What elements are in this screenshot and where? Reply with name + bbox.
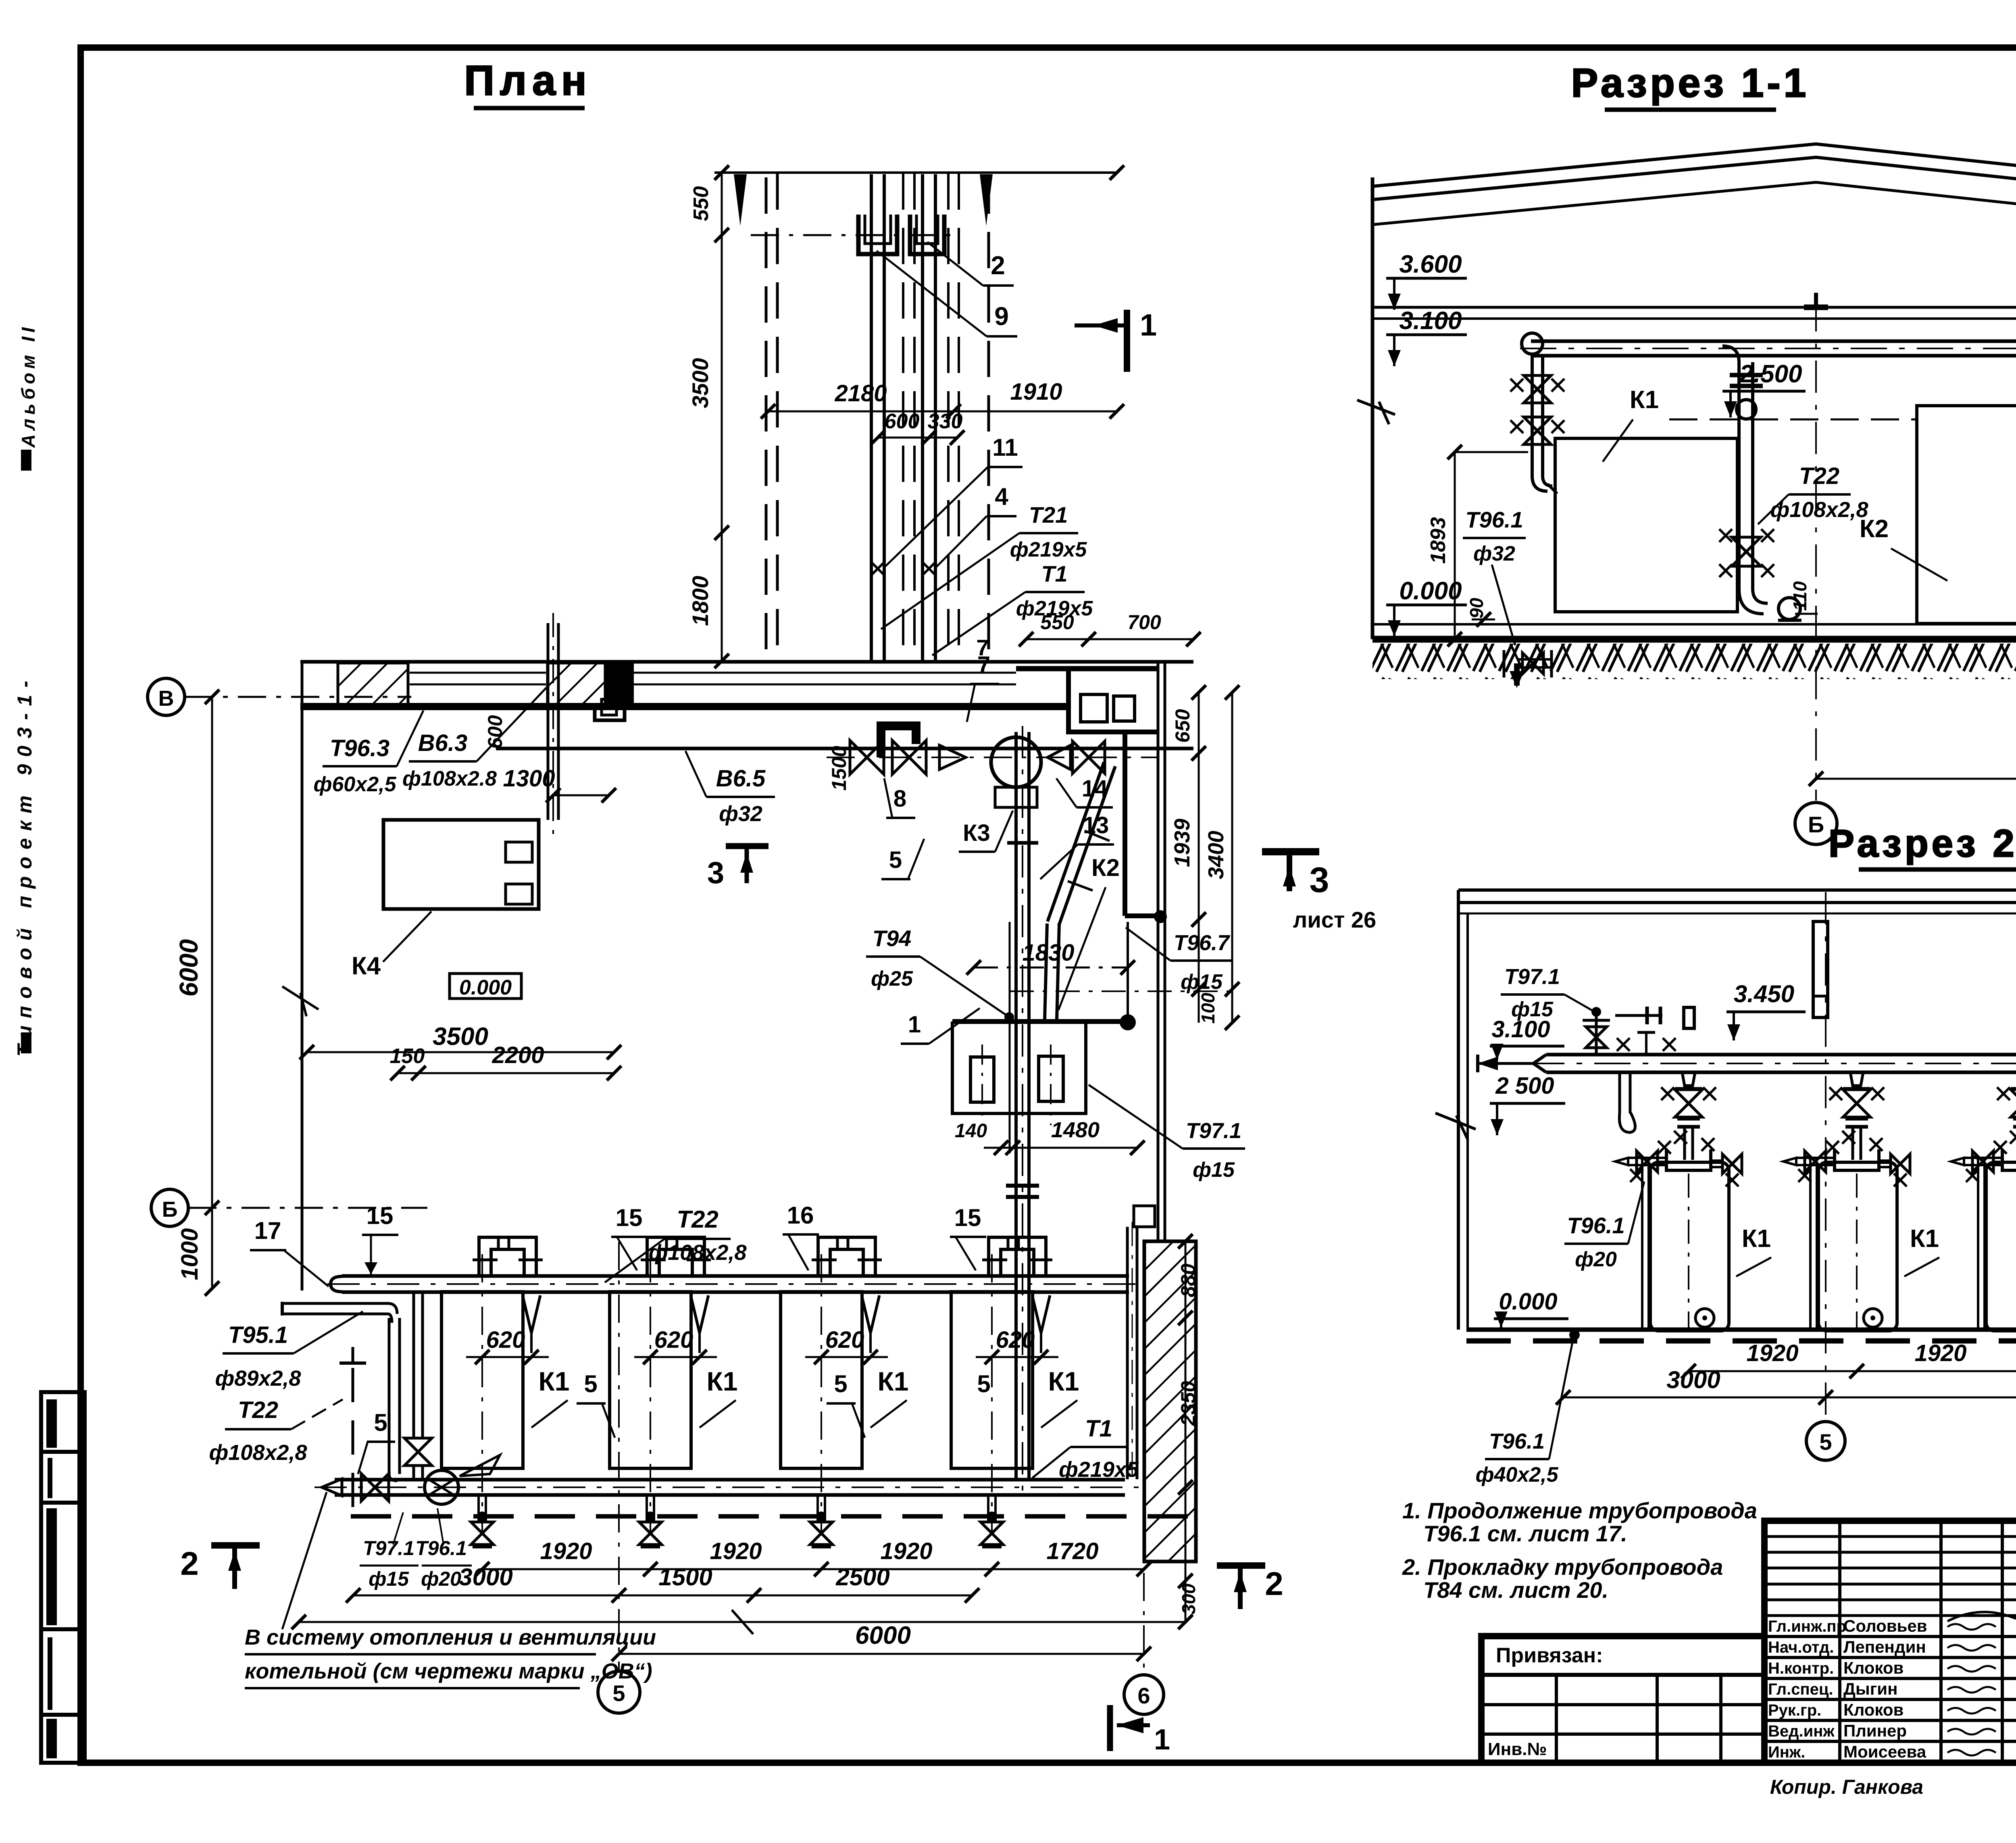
left vertical pipe to lower manifold	[388, 1318, 391, 1474]
s1 break mark left	[1357, 400, 1395, 415]
axis circle 5 bottom	[598, 1671, 640, 1713]
svg-text:1: 1	[908, 1011, 921, 1038]
s1 ground hatch band	[1372, 644, 2016, 679]
support triangle boiler 3	[862, 1295, 871, 1333]
svg-text:ф60х2,5: ф60х2,5	[313, 773, 396, 796]
svg-text:16: 16	[787, 1202, 814, 1229]
s2 left fitting cluster	[1591, 1007, 1601, 1017]
svg-text:110: 110	[1789, 581, 1810, 611]
svg-text:ф89х2,8: ф89х2,8	[215, 1366, 301, 1391]
svg-text:550: 550	[1040, 611, 1074, 634]
page edge fold marks	[21, 450, 31, 471]
s2 side valve right boiler 2	[1879, 1166, 1891, 1168]
svg-text:1500: 1500	[828, 746, 850, 790]
svg-text:Т84 см. лист 20.: Т84 см. лист 20.	[1423, 1577, 1608, 1603]
corridor dim 600 330	[878, 437, 957, 439]
svg-text:ф20: ф20	[1575, 1248, 1617, 1271]
compensator loop boiler 3	[818, 1237, 875, 1276]
svg-text:К1: К1	[539, 1366, 570, 1396]
svg-text:ф108х2,8: ф108х2,8	[649, 1240, 747, 1265]
inner corridor pipe line B6.5	[496, 747, 1193, 751]
svg-text:Разрез 2-2: Разрез 2-2	[1829, 822, 2016, 865]
svg-text:6000: 6000	[174, 939, 203, 997]
s2 left wall	[1457, 890, 1460, 1330]
corridor pipe T1 double	[921, 174, 924, 661]
left elbow pipe T95.1 horizontal	[282, 1313, 388, 1316]
pipe T96.7 riser line	[1127, 922, 1129, 1022]
right dim column 650	[1198, 692, 1200, 1023]
s1 floor thin line	[1372, 623, 2016, 625]
section flag 3 mid plan	[726, 843, 768, 849]
svg-text:К4: К4	[352, 952, 381, 980]
boiler K1 #1 plan	[442, 1292, 523, 1468]
assembly valve 1	[850, 740, 884, 774]
title block left part outline	[1481, 1636, 1764, 1763]
axis circle V	[148, 678, 185, 715]
lower manifold centerline	[314, 1486, 1141, 1488]
svg-text:Т97.1: Т97.1	[363, 1537, 414, 1559]
dimension 150 2200 row	[398, 1072, 614, 1074]
svg-text:5: 5	[834, 1370, 847, 1397]
s2 valve assembly boiler 2	[1850, 1072, 1863, 1086]
corridor dashed pipe 2	[776, 173, 779, 661]
bowtie on lower manifold	[361, 1474, 389, 1501]
s1 riser valve 2	[1524, 417, 1551, 444]
junction dot	[1154, 910, 1167, 923]
svg-text:Т97.1: Т97.1	[1186, 1119, 1241, 1143]
flange marks loop 2	[641, 1259, 666, 1261]
dimension row 1920x3 1720 plan	[482, 1568, 1144, 1570]
svg-text:Т95.1: Т95.1	[228, 1322, 288, 1348]
dimension 3500 row	[307, 1051, 614, 1053]
svg-text:ф15: ф15	[1193, 1158, 1235, 1182]
svg-text:Клоков: Клоков	[1843, 1658, 1904, 1677]
svg-text:1: 1	[1154, 1724, 1170, 1756]
roof edge triangle right	[980, 174, 993, 226]
s2 boiler pump circle 2	[1864, 1309, 1882, 1327]
svg-text:Т96.7: Т96.7	[1174, 931, 1231, 955]
diag pipe joint marks	[1068, 881, 1093, 890]
s2 manifold bracket boiler 3	[2002, 1149, 2016, 1170]
svg-text:0.000: 0.000	[459, 976, 512, 999]
s2 side pipe boiler 2	[1796, 1164, 1835, 1166]
svg-text:Т97.1: Т97.1	[1504, 965, 1560, 989]
svg-text:Разрез 1-1: Разрез 1-1	[1571, 60, 1810, 106]
extension line right	[1010, 990, 1232, 992]
svg-text:Т22: Т22	[1799, 463, 1839, 489]
svg-text:14: 14	[1082, 776, 1108, 802]
dimension 6000 plan	[619, 1653, 1144, 1655]
svg-text:600: 600	[885, 410, 920, 433]
svg-text:0.000: 0.000	[1499, 1288, 1557, 1315]
s2 manifold bracket boiler 1	[1666, 1149, 1711, 1170]
svg-text:100: 100	[1198, 992, 1218, 1024]
svg-text:1000: 1000	[177, 1228, 203, 1280]
svg-text:Привязан:: Привязан:	[1496, 1644, 1603, 1667]
left vertical dimension 6000	[211, 697, 213, 1288]
vestibule wall step	[1068, 669, 1158, 732]
svg-text:650: 650	[1171, 709, 1194, 743]
svg-text:3: 3	[707, 856, 724, 890]
support triangle boiler 1	[523, 1295, 531, 1333]
riser flange mark 2	[1007, 841, 1038, 845]
svg-text:Т1: Т1	[1085, 1416, 1112, 1442]
svg-text:Т96.1: Т96.1	[1567, 1213, 1624, 1238]
svg-text:880: 880	[1177, 1263, 1200, 1297]
compensator loop boiler 4	[989, 1237, 1046, 1276]
vertical pipe T1 along right wall	[1126, 1227, 1129, 1479]
s1 left riser air vent circle	[1522, 333, 1543, 354]
vestibule equipment box 1	[1081, 694, 1107, 722]
svg-text:Т94: Т94	[873, 926, 912, 951]
K2 top heavy line	[952, 1019, 1128, 1024]
svg-text:2: 2	[991, 251, 1005, 280]
flange marks loop 4	[982, 1259, 1007, 1261]
assembly valve 2	[892, 740, 926, 774]
vestibule equipment box 2	[1114, 696, 1135, 721]
svg-text:3500: 3500	[687, 358, 713, 409]
svg-text:1920: 1920	[1746, 1340, 1798, 1366]
plan top wall outer line	[300, 660, 1193, 664]
svg-text:13: 13	[1083, 812, 1109, 838]
arrow mark on manifold	[460, 1455, 500, 1476]
corridor pipe T21 double	[870, 174, 873, 661]
dashed riser T22 left	[352, 1368, 354, 1515]
svg-text:5: 5	[612, 1680, 625, 1706]
riser flange pair	[1006, 1184, 1039, 1188]
dimension 1830	[974, 967, 1128, 969]
signature table thin rows	[1764, 1535, 2016, 1538]
s2 boiler K1 #1	[1650, 1162, 1729, 1331]
boiler K1 #3 plan	[781, 1292, 862, 1468]
stamp column rotated text marks	[46, 1399, 57, 1448]
svg-text:ф108х2,8: ф108х2,8	[1770, 498, 1868, 522]
svg-text:3000: 3000	[459, 1564, 512, 1591]
svg-text:7: 7	[976, 635, 989, 660]
svg-text:140: 140	[955, 1120, 987, 1142]
svg-text:В6.5: В6.5	[716, 765, 766, 792]
signature table verticals	[1838, 1521, 1841, 1763]
diagonal pipe from assembly	[1048, 762, 1104, 921]
s1 roof top chord	[1372, 144, 2016, 224]
corridor dashed pair mid	[902, 173, 904, 661]
svg-text:3000: 3000	[1666, 1366, 1720, 1393]
s2 break mark left	[1435, 1113, 1476, 1129]
svg-text:15: 15	[616, 1204, 643, 1231]
svg-text:Н.контр.: Н.контр.	[1768, 1660, 1834, 1677]
axis V dash-dot line	[185, 696, 411, 698]
svg-text:В систему отопления и вентиляц: В систему отопления и вентиляции	[245, 1625, 656, 1649]
s1 roof lower line	[1372, 182, 2016, 262]
inner wall right vertical	[1123, 732, 1127, 916]
svg-text:К1: К1	[1742, 1225, 1771, 1253]
assembly hoop pipe	[881, 726, 916, 757]
svg-text:6: 6	[1137, 1683, 1150, 1708]
svg-text:2500: 2500	[835, 1564, 889, 1591]
svg-text:620: 620	[654, 1327, 694, 1353]
svg-text:Дыгин: Дыгин	[1843, 1679, 1897, 1698]
s2 manifold bracket boiler 2	[1835, 1149, 1879, 1170]
s1 T22 flange	[1730, 373, 1763, 377]
svg-text:4: 4	[995, 483, 1008, 510]
s1 axis circle B	[1795, 803, 1837, 844]
dimension row 3000 1500 2500	[353, 1595, 972, 1597]
svg-text:К1: К1	[1630, 386, 1659, 414]
svg-text:ф20: ф20	[421, 1568, 461, 1590]
svg-text:Т22: Т22	[238, 1397, 278, 1423]
s2 boiler pump circle 1	[1695, 1309, 1714, 1327]
svg-text:1800: 1800	[687, 576, 713, 626]
s1 2.500 level dash line	[1669, 419, 1915, 421]
K4 inner box 1	[506, 842, 532, 862]
s2 dim row 1920	[1689, 1370, 2016, 1372]
section flag T3 right	[1262, 848, 1319, 855]
K4 inner box 2	[506, 884, 532, 904]
svg-text:3400: 3400	[1204, 831, 1228, 879]
title block outline right part	[1764, 1521, 2016, 1763]
svg-text:3.450: 3.450	[1734, 980, 1794, 1007]
boiler 4 drop valve below manifold	[987, 1512, 997, 1521]
svg-text:Т1: Т1	[1041, 561, 1067, 586]
roof edge triangle left	[734, 174, 747, 226]
boiler 1 drop valve below manifold	[477, 1512, 487, 1521]
branch pipe from upper manifold	[412, 1292, 415, 1438]
svg-text:котельной (см чертежи марки „О: котельной (см чертежи марки „ОВ“)	[245, 1659, 652, 1683]
svg-text:К1: К1	[878, 1366, 909, 1396]
section flag T2 bottom right	[1217, 1562, 1265, 1569]
svg-text:ф32: ф32	[1473, 542, 1515, 565]
burner box 2	[1039, 1056, 1063, 1101]
s2 axis circle 5	[1806, 1422, 1845, 1460]
svg-text:15: 15	[367, 1202, 394, 1229]
s1 T22 circle fitting	[1737, 400, 1756, 419]
dimension 1300	[553, 794, 609, 796]
svg-text:2180: 2180	[834, 380, 887, 407]
assembly valve 3	[1073, 741, 1105, 773]
svg-text:Т96.1: Т96.1	[1489, 1429, 1545, 1453]
svg-text:620: 620	[486, 1327, 525, 1353]
s1 dim 1893	[1454, 452, 1456, 639]
tank K4	[383, 820, 539, 909]
svg-text:Инв.№: Инв.№	[1488, 1739, 1547, 1759]
svg-text:Плинер: Плинер	[1843, 1721, 1907, 1740]
svg-text:ф15: ф15	[1181, 970, 1223, 994]
svg-text:Т96.1: Т96.1	[1465, 507, 1523, 532]
svg-text:1920: 1920	[1914, 1340, 1966, 1366]
s2 valve assembly boiler 1	[1682, 1072, 1695, 1086]
svg-text:1920: 1920	[540, 1538, 592, 1564]
svg-text:5: 5	[889, 847, 902, 873]
leader to note	[282, 1492, 327, 1629]
right dim 3400	[1231, 692, 1233, 1023]
svg-text:Альбом II: Альбом II	[18, 323, 39, 448]
wall window thin lines 1	[410, 672, 546, 674]
svg-text:Типовой проект 903-1-: Типовой проект 903-1-	[13, 673, 36, 1057]
s2 boiler left pipe 3	[1977, 1161, 1979, 1330]
svg-text:Т96.1: Т96.1	[415, 1537, 467, 1559]
svg-text:1910: 1910	[1010, 379, 1062, 405]
svg-text:620: 620	[825, 1327, 864, 1353]
privyazan box line	[1481, 1673, 1764, 1677]
riser pipe into K4	[547, 623, 550, 820]
svg-text:Инж.: Инж.	[1768, 1743, 1805, 1761]
right dim 2350	[1185, 1318, 1187, 1487]
svg-text:Б: Б	[162, 1197, 178, 1222]
svg-text:3.600: 3.600	[1399, 250, 1462, 278]
corridor top dim line	[714, 171, 1117, 174]
svg-text:0.000: 0.000	[1399, 577, 1462, 605]
svg-text:150: 150	[390, 1045, 425, 1068]
compensator loop boiler 1	[479, 1237, 536, 1276]
corridor dash-dot through clamps	[751, 234, 953, 236]
svg-text:К2: К2	[1091, 854, 1120, 881]
s1 heater K2 box	[1917, 406, 2016, 623]
leader lines from drop labels	[393, 1512, 403, 1545]
s2 floor dashed heavy	[1466, 1338, 2016, 1344]
assembly flow arrow right	[1048, 745, 1070, 769]
wall window thin lines 2	[633, 672, 1016, 674]
s1 ceiling line 3.600	[1372, 306, 2016, 309]
svg-text:3.100: 3.100	[1491, 1016, 1550, 1042]
svg-text:1300: 1300	[503, 765, 555, 792]
section flag 1 top	[1124, 310, 1130, 372]
axis line 5 bottom	[618, 1242, 620, 1671]
s2 side valve right boiler 1	[1711, 1166, 1723, 1168]
svg-text:1480: 1480	[1051, 1118, 1100, 1142]
svg-text:ф25: ф25	[871, 967, 913, 990]
svg-text:1920: 1920	[710, 1538, 762, 1564]
plan top wall inner heavy line	[300, 703, 1070, 710]
s1 dim 6000	[1816, 778, 2016, 780]
left page-edge stamp column	[41, 1392, 85, 1763]
axis B dash-dot line	[188, 1207, 427, 1209]
s2 boiler left pipe 2	[1809, 1161, 1812, 1330]
boiler 2 drop valve below manifold	[646, 1512, 655, 1521]
axis line 6 bottom	[1143, 1573, 1145, 1675]
svg-text:5: 5	[584, 1370, 597, 1397]
svg-text:Рук.гр.: Рук.гр.	[1768, 1701, 1821, 1719]
axis circle 6 bottom	[1124, 1675, 1164, 1714]
svg-text:3: 3	[1310, 860, 1329, 900]
svg-text:ф15: ф15	[369, 1568, 409, 1590]
left pipe T95.1 elbow down	[388, 1303, 397, 1314]
s1 riser T22 middle	[1737, 362, 1741, 589]
corridor dashed pipe right edge	[987, 177, 990, 661]
s1 T22 valve	[1732, 537, 1761, 566]
svg-text:5: 5	[977, 1370, 990, 1397]
assembly flow arrow left	[939, 745, 966, 769]
s2 dim row 3000 6000	[1563, 1397, 2016, 1399]
s1 floor heavy line	[1372, 636, 2016, 643]
support triangle boiler 2	[691, 1295, 700, 1333]
svg-text:300: 300	[1178, 1583, 1199, 1614]
burner box 1	[971, 1057, 994, 1102]
head signature arrow	[1947, 1598, 2016, 1622]
svg-text:17: 17	[254, 1217, 281, 1244]
svg-text:К1: К1	[1910, 1225, 1939, 1253]
s1 riser valve 1	[1524, 375, 1551, 403]
boiler K1 #2 plan	[610, 1292, 691, 1468]
svg-text:2. Прокладку трубопровода: 2. Прокладку трубопровода	[1402, 1554, 1723, 1580]
svg-text:Вед.инж: Вед.инж	[1768, 1722, 1835, 1740]
svg-text:700: 700	[1127, 611, 1161, 634]
s2 U drop seal	[1618, 1072, 1621, 1113]
corridor dim 2180 1910	[768, 411, 1117, 413]
s2 hanging column 1	[1813, 921, 1828, 1017]
axis circle B left	[151, 1189, 188, 1226]
section flag 1 bottom right	[1107, 1705, 1113, 1751]
svg-text:1720: 1720	[1046, 1538, 1098, 1564]
svg-text:550: 550	[689, 186, 713, 221]
flange marks loop 3	[812, 1259, 837, 1261]
svg-text:ф108х2.8: ф108х2.8	[402, 767, 497, 790]
svg-text:2 500: 2 500	[1495, 1073, 1554, 1099]
svg-text:В6.3: В6.3	[418, 730, 468, 756]
right dim 300	[1185, 1487, 1187, 1622]
svg-text:1: 1	[1140, 308, 1157, 342]
s1 axis B vertical dashdot	[1815, 299, 1817, 801]
svg-text:ф32: ф32	[719, 802, 762, 826]
s1 riser T22 top elbow	[1722, 346, 1739, 362]
svg-text:1939: 1939	[1170, 819, 1194, 867]
svg-text:Соловьев: Соловьев	[1843, 1616, 1927, 1635]
svg-text:600: 600	[484, 715, 506, 749]
wall break mark	[282, 986, 319, 1009]
svg-text:9: 9	[994, 302, 1009, 331]
svg-text:Т22: Т22	[677, 1206, 718, 1233]
wall hatched block 1	[338, 663, 408, 705]
s1 support mark on ceiling	[1804, 304, 1828, 310]
svg-text:Лепендин: Лепендин	[1843, 1637, 1926, 1656]
svg-text:2200: 2200	[492, 1042, 544, 1068]
left part inner grid	[1481, 1703, 1764, 1706]
support triangle boiler 4	[1032, 1295, 1041, 1333]
s2 floor line	[1466, 1328, 2016, 1332]
svg-text:Т96.1 см. лист 17.: Т96.1 см. лист 17.	[1423, 1521, 1627, 1546]
s1 floor drain assembly	[1517, 666, 1550, 669]
boiler K1 #4 plan	[951, 1292, 1033, 1468]
svg-text:Моисеева: Моисеева	[1843, 1742, 1926, 1761]
s1 boiler K1 box	[1555, 438, 1737, 612]
level box 0.000	[450, 974, 521, 999]
s2 pipe left taper	[1533, 1055, 1546, 1072]
plan left wall line	[301, 661, 304, 1291]
heater K2 plan	[952, 1022, 1086, 1113]
svg-text:5: 5	[1819, 1429, 1832, 1455]
svg-text:11: 11	[992, 434, 1018, 461]
svg-text:6000: 6000	[855, 1622, 911, 1649]
small box on right wall	[1134, 1206, 1155, 1227]
corridor dashed pair right	[947, 173, 950, 661]
vestibule wall top right	[1016, 666, 1159, 671]
flange marks loop 1	[473, 1259, 498, 1261]
boiler 3 drop valve below manifold	[816, 1512, 826, 1521]
wall hatched block 2	[548, 663, 605, 705]
s1 left riser pipe	[1531, 356, 1534, 476]
svg-text:8: 8	[893, 786, 906, 812]
svg-text:К1: К1	[707, 1366, 738, 1396]
svg-text:ф219х5: ф219х5	[1010, 538, 1087, 561]
assembly pump circle K3	[991, 737, 1041, 787]
plan right wall lines	[1157, 661, 1160, 1241]
s2 main pipe 3.100	[1546, 1071, 2016, 1074]
signature table main rows	[1764, 1635, 2016, 1638]
pump/valve assembly centerline plan	[827, 757, 1157, 758]
svg-text:Гл.спец.: Гл.спец.	[1768, 1680, 1833, 1698]
svg-text:К3: К3	[963, 820, 990, 846]
s1 left wall	[1371, 177, 1375, 639]
svg-text:ф108х2,8: ф108х2,8	[209, 1441, 307, 1465]
